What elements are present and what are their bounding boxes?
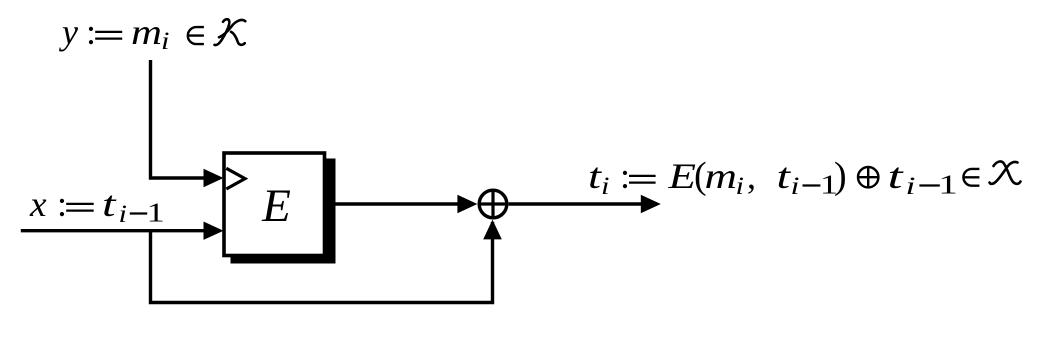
svg-text:t: t <box>777 156 792 196</box>
label x input: x := t_{i-1} <box>29 184 165 228</box>
symbol script X in output label <box>990 161 1021 183</box>
svg-text:E: E <box>261 180 291 232</box>
svg-text:m: m <box>705 156 738 196</box>
svg-text::: : <box>620 156 630 196</box>
label y input: y := m_i ∈ K <box>59 12 170 55</box>
wire E output to XOR <box>325 202 460 205</box>
wire key input from y label down and right into E <box>151 60 206 178</box>
block cipher E shadow <box>231 159 336 264</box>
svg-text:i: i <box>161 28 170 55</box>
arrowhead output <box>641 195 661 213</box>
label output: t_i := E(m_i, t_{i-1}) xor t_{i-1} in X <box>588 155 958 200</box>
svg-text:i: i <box>791 173 800 200</box>
svg-text::: : <box>86 12 96 52</box>
minus sign in second output subscript <box>919 184 939 186</box>
minus sign in first output subscript <box>803 184 821 186</box>
symbol script K in y label <box>215 19 246 45</box>
svg-text:E: E <box>667 156 696 196</box>
svg-text::: : <box>57 184 67 224</box>
XOR gate circled plus <box>479 190 507 218</box>
svg-text:i: i <box>119 201 128 228</box>
arrowhead key input into E <box>204 169 224 187</box>
equals sign in output label <box>629 176 656 183</box>
wire feedback from x line down along bottom and up to XOR <box>151 222 493 303</box>
svg-text:1: 1 <box>938 170 958 200</box>
svg-text:,: , <box>747 156 756 196</box>
svg-text:t: t <box>102 184 117 224</box>
arrowhead E output into XOR <box>457 195 477 213</box>
svg-text:i: i <box>736 173 745 200</box>
svg-text:y: y <box>59 12 78 52</box>
symbol element-of in output label <box>963 169 979 186</box>
svg-text:t: t <box>888 156 904 196</box>
block cipher E box U1 <box>224 153 325 256</box>
svg-text:): ) <box>834 155 847 197</box>
svg-text:i: i <box>601 173 610 200</box>
minus sign in x label subscript <box>130 212 147 214</box>
arrowhead x input into E <box>204 222 224 240</box>
wire x input into E <box>21 229 205 232</box>
arrowhead feedback into XOR <box>483 220 502 240</box>
svg-text:1: 1 <box>147 197 165 227</box>
svg-text:m: m <box>131 12 162 52</box>
symbol element-of in y label <box>188 27 204 44</box>
svg-text:i: i <box>906 173 916 200</box>
equals sign in y label <box>95 32 122 39</box>
wire XOR output <box>509 202 642 205</box>
svg-text:x: x <box>29 184 47 224</box>
key input chevron marker on E <box>226 168 245 189</box>
symbol xor in output label <box>858 167 878 187</box>
equals sign in x label <box>66 204 94 211</box>
